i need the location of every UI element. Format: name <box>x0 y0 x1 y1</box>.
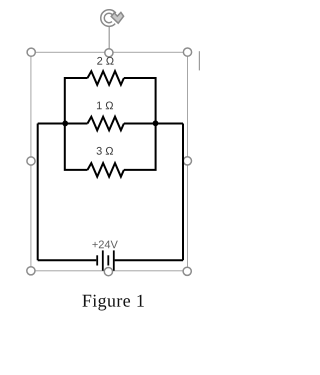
node A junction dot left <box>62 121 68 127</box>
selection border <box>31 52 188 270</box>
wire 1ohm row left <box>38 123 88 125</box>
wire right branch drop 3ohm <box>124 124 156 170</box>
selection handle bottom-middle <box>104 268 112 276</box>
resistor R2 1ohm <box>88 117 124 131</box>
battery B1 plate short 2 <box>107 255 109 265</box>
wire left outer <box>37 124 39 261</box>
selection handle bottom-left <box>27 267 35 275</box>
wire left branch riser 2ohm <box>65 78 88 124</box>
battery B1 plate long 1 <box>102 250 104 270</box>
resistor R1 2ohm <box>88 71 124 85</box>
selection handle middle-left <box>27 157 35 165</box>
battery B1 plate short 1 <box>96 255 98 265</box>
battery B1 plate long 2 <box>113 250 115 270</box>
label R3 3ohm <box>97 147 114 155</box>
label R1 2ohm <box>97 57 113 65</box>
wire left branch drop 3ohm <box>65 124 88 170</box>
resistor R3 3ohm <box>88 163 124 177</box>
wire bottom left <box>38 259 97 261</box>
wire right branch riser 2ohm <box>124 78 156 124</box>
node B junction dot right <box>153 120 159 126</box>
selection handle top-right <box>183 48 191 56</box>
selection handle bottom-right <box>183 267 191 275</box>
wire bottom right <box>115 259 183 261</box>
label battery +24V <box>92 241 117 249</box>
wire 1ohm row right <box>124 123 183 125</box>
rotate handle stem <box>108 27 110 49</box>
label R2 1ohm <box>97 102 113 110</box>
wire right outer <box>182 124 184 261</box>
selection handle top-middle <box>105 49 113 57</box>
selection handle middle-right <box>183 157 191 165</box>
caption Figure 1 <box>82 295 143 311</box>
rotate icon <box>101 10 124 27</box>
selection handle top-left <box>27 48 35 56</box>
edge fragment right <box>198 51 200 70</box>
